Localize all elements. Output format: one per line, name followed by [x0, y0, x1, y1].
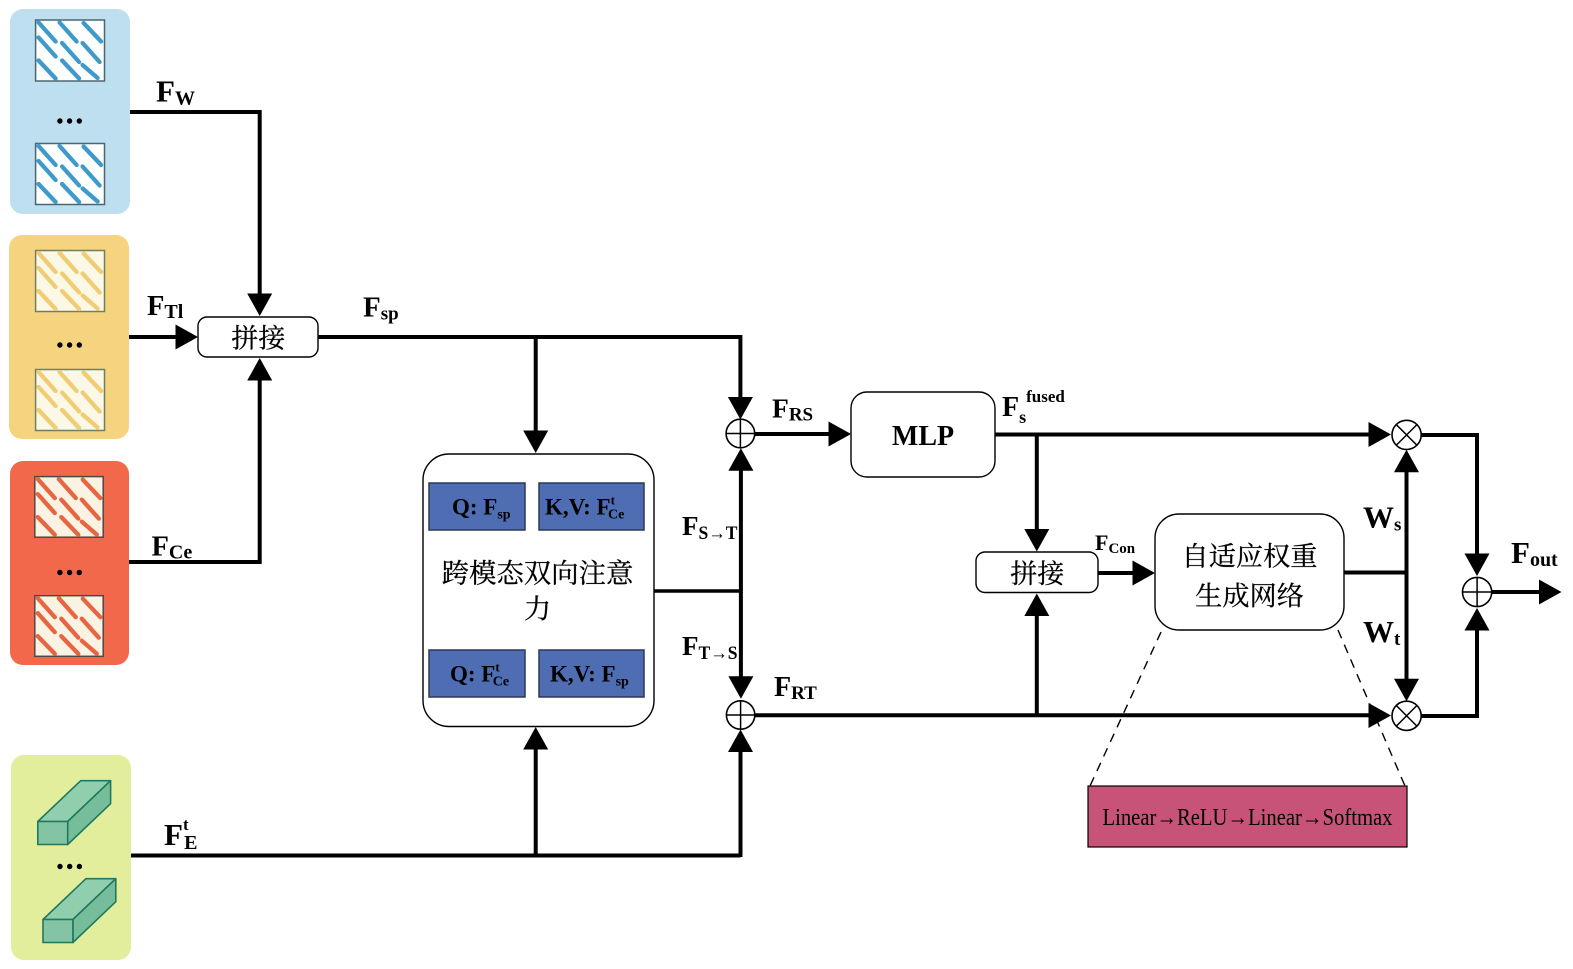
svg-text:MLP: MLP [892, 421, 954, 452]
svg-text:K,V: FtCe: K,V: FtCe [545, 493, 624, 523]
svg-text:Linear→ReLU→Linear→Softmax: Linear→ReLU→Linear→Softmax [1103, 805, 1393, 831]
